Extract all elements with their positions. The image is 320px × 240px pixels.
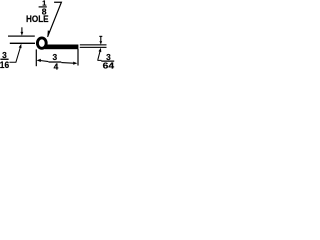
sheet bar (section)	[45, 45, 79, 50]
dimension arrow up with slanted leader (3/64 lower)	[98, 48, 102, 61]
extension line vertical left (3/4)	[36, 49, 37, 66]
svg-text:3: 3	[52, 52, 57, 62]
dimension arrow up with slanted leader (3/16 lower)	[9, 44, 21, 62]
dimension line 3/4 right with arrow	[61, 62, 77, 65]
callout text 3/64	[101, 52, 114, 71]
extension line upper left	[8, 36, 35, 37]
extension line vertical right (3/4)	[77, 49, 78, 66]
dimension arrow down (3/16 upper)	[21, 27, 24, 36]
leader arrowhead	[47, 30, 50, 37]
dimension line 3/4 left with arrow	[37, 59, 49, 62]
callout text 3/16	[0, 50, 9, 70]
extension line right upper (3/64)	[80, 44, 107, 45]
callout text 1/8	[39, 0, 47, 16]
curled eye circle	[37, 38, 46, 48]
svg-text:64: 64	[103, 60, 115, 70]
dimension arrow down (3/64 upper)	[99, 36, 102, 45]
extension line right lower (3/64)	[80, 47, 107, 48]
svg-text:HOLE: HOLE	[26, 14, 49, 24]
svg-text:16: 16	[0, 60, 9, 70]
extension line lower left	[10, 43, 35, 44]
leader line to hole	[48, 2, 62, 37]
callout text 3/4	[49, 52, 62, 72]
svg-text:4: 4	[54, 62, 59, 72]
